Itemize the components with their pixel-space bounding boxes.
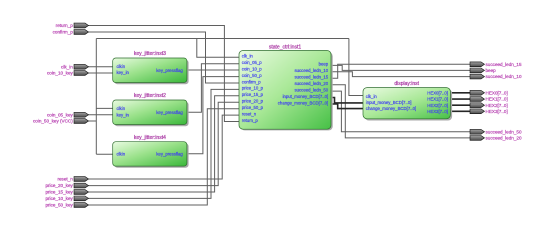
svg-text:HEX2[7..0]: HEX2[7..0] <box>486 103 508 108</box>
svg-text:clkin: clkin <box>117 152 126 157</box>
svg-text:key_jitter:inst2: key_jitter:inst2 <box>134 93 166 99</box>
svg-text:beep: beep <box>319 62 329 67</box>
svg-text:reset_n: reset_n <box>57 177 73 182</box>
svg-text:price_15_key: price_15_key <box>45 190 73 195</box>
svg-text:coin_50_p: coin_50_p <box>242 73 262 78</box>
svg-text:price_20_p: price_20_p <box>242 99 264 104</box>
svg-text:key_pressflag: key_pressflag <box>156 68 183 73</box>
svg-text:change_money_BCD[7..0]: change_money_BCD[7..0] <box>366 106 416 111</box>
svg-text:change_money_BCD[7..0]: change_money_BCD[7..0] <box>278 100 328 105</box>
svg-text:price_15_p: price_15_p <box>242 92 264 97</box>
svg-text:display:inst: display:inst <box>394 81 419 87</box>
svg-text:return_p: return_p <box>56 23 74 28</box>
svg-text:price_20_key: price_20_key <box>45 183 73 188</box>
svg-text:coin_05_p: coin_05_p <box>242 60 262 65</box>
svg-text:succeed_ledn_10: succeed_ledn_10 <box>486 74 522 79</box>
svg-text:HEX0[7..0]: HEX0[7..0] <box>427 90 448 95</box>
svg-text:key_in: key_in <box>117 70 130 75</box>
svg-text:succeed_ledn_50: succeed_ledn_50 <box>295 87 329 92</box>
svg-text:price_10_p: price_10_p <box>242 86 264 91</box>
svg-text:HEX3[7..0]: HEX3[7..0] <box>427 109 448 114</box>
svg-text:coin_50_key (VCC): coin_50_key (VCC) <box>33 119 73 124</box>
svg-text:input_money_BCD[7..0]: input_money_BCD[7..0] <box>283 94 329 99</box>
svg-text:succeed_ledn_20: succeed_ledn_20 <box>295 81 329 86</box>
svg-text:HEX0[7..0]: HEX0[7..0] <box>486 90 508 95</box>
svg-text:succeed_ledn_15: succeed_ledn_15 <box>295 75 329 80</box>
svg-text:price_50_p: price_50_p <box>242 105 264 110</box>
svg-text:HEX2[7..0]: HEX2[7..0] <box>427 103 448 108</box>
svg-text:succeed_ledn_15: succeed_ledn_15 <box>486 62 522 67</box>
svg-text:state_ctrl:inst1: state_ctrl:inst1 <box>269 44 301 50</box>
svg-text:key_pressflag: key_pressflag <box>156 110 183 115</box>
svg-text:clkin: clkin <box>117 106 126 111</box>
svg-text:succeed_ledn_20: succeed_ledn_20 <box>486 136 522 141</box>
svg-text:coin_10_p: coin_10_p <box>242 66 262 71</box>
svg-text:clk_in: clk_in <box>366 94 378 99</box>
svg-text:beep: beep <box>486 68 497 73</box>
svg-text:coin_10_key: coin_10_key <box>47 71 73 76</box>
svg-text:key_pressflag: key_pressflag <box>156 152 183 157</box>
svg-text:HEX3[7..0]: HEX3[7..0] <box>486 109 508 114</box>
svg-text:price_10_key: price_10_key <box>45 196 73 201</box>
svg-text:key_in: key_in <box>117 112 130 117</box>
svg-text:HEX1[7..0]: HEX1[7..0] <box>486 97 508 102</box>
svg-text:reset_n: reset_n <box>242 111 257 116</box>
svg-text:price_50_key: price_50_key <box>45 203 73 208</box>
svg-text:coin_05_key: coin_05_key <box>47 112 73 117</box>
svg-text:succeed_ledn_10: succeed_ledn_10 <box>295 68 329 73</box>
svg-text:key_jitter:inst3: key_jitter:inst3 <box>134 51 166 57</box>
svg-text:key_jitter:inst4: key_jitter:inst4 <box>134 135 166 141</box>
svg-text:succeed_ledn_50: succeed_ledn_50 <box>486 129 522 134</box>
svg-text:input_money_BCD[7..0]: input_money_BCD[7..0] <box>366 100 412 105</box>
svg-text:clk_in: clk_in <box>242 54 254 59</box>
svg-text:confirm_p: confirm_p <box>242 79 261 84</box>
svg-text:clk_in: clk_in <box>61 64 73 69</box>
svg-text:clkin: clkin <box>117 64 126 69</box>
svg-text:HEX1[7..0]: HEX1[7..0] <box>427 97 448 102</box>
svg-text:confirm_p: confirm_p <box>53 30 74 35</box>
svg-text:return_p: return_p <box>242 118 259 123</box>
